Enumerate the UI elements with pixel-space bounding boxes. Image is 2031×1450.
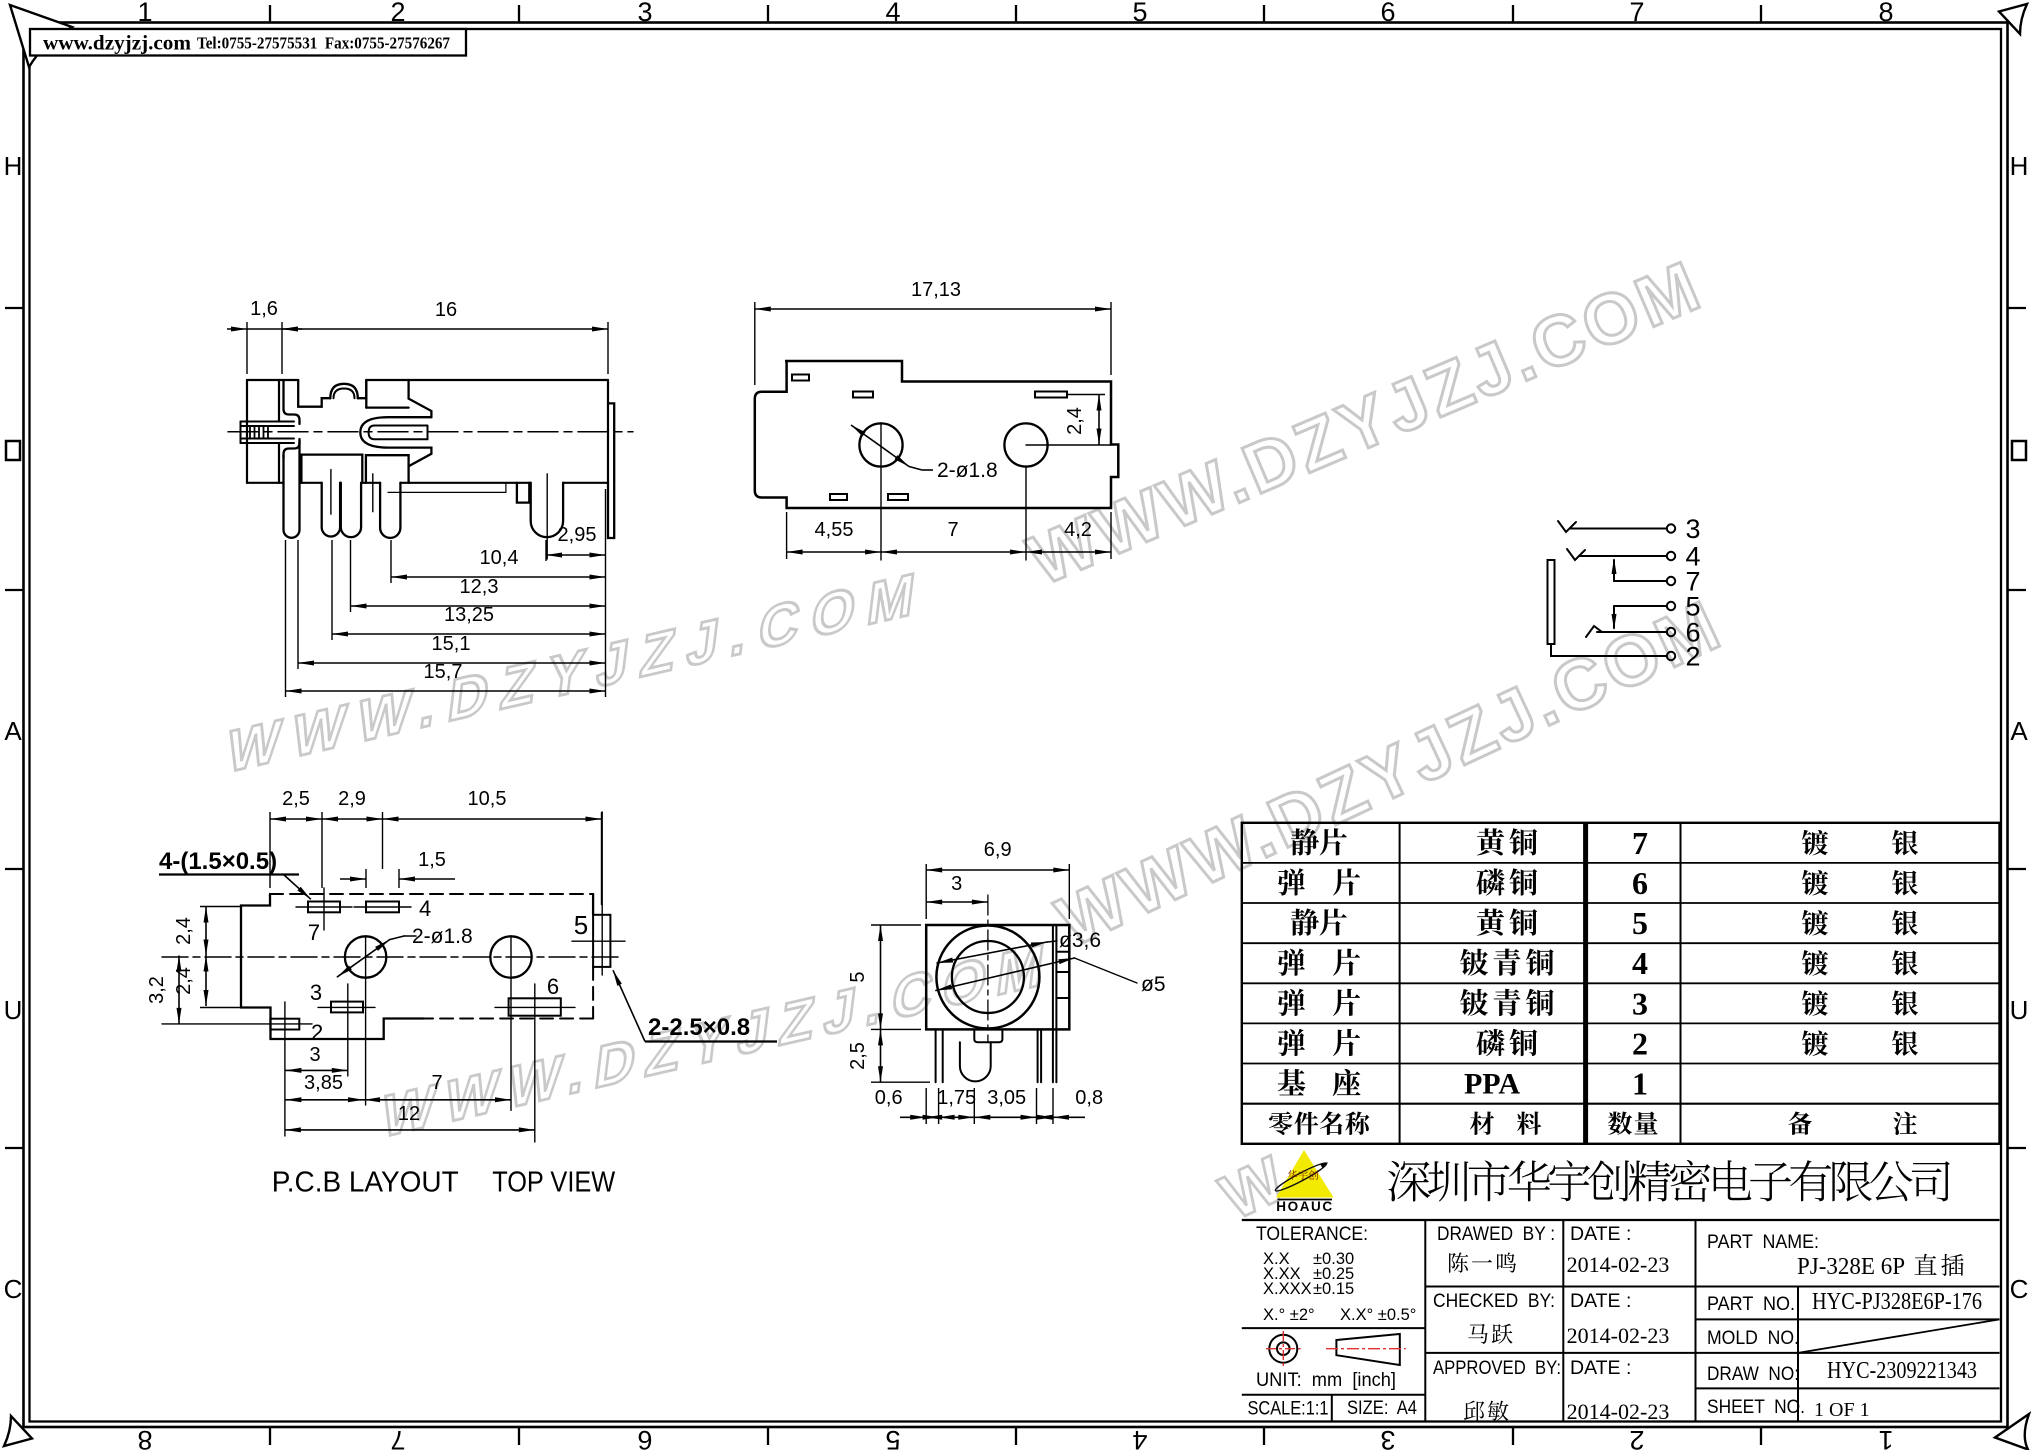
pin 4 (380, 483, 400, 538)
table row 4 (1278, 948, 1360, 975)
svg-text:DRAWED BY :: DRAWED BY : (1437, 1223, 1555, 1245)
pin5 stub (517, 483, 529, 503)
svg-text:2: 2 (390, 0, 405, 27)
url box (30, 29, 466, 56)
svg-text:2,95: 2,95 (558, 524, 597, 546)
table row 2 (1278, 1029, 1360, 1056)
pin 5 (531, 483, 563, 537)
table row 3 (1278, 989, 1360, 1016)
company logo (1276, 1150, 1334, 1198)
pcb outline dashed right/bottom (592, 894, 594, 915)
label o5 (1075, 958, 1138, 983)
company name (1388, 1160, 1950, 1202)
title block lines (1242, 1219, 2000, 1221)
pcb hole right (490, 936, 531, 977)
zone ticks bottom (269, 1427, 271, 1445)
svg-text:www.dzyjzj.com: www.dzyjzj.com (43, 31, 191, 55)
svg-text:3: 3 (309, 1044, 320, 1066)
svg-text:2,5: 2,5 (282, 788, 310, 810)
svg-text:DATE :: DATE : (1570, 1290, 1631, 1312)
svg-text:1: 1 (1878, 1425, 1893, 1450)
svg-text:HOAUC: HOAUC (1276, 1199, 1334, 1214)
svg-text:2-2.5×0.8: 2-2.5×0.8 (648, 1014, 750, 1041)
svg-text:3: 3 (1685, 514, 1700, 544)
pcb outline dashed top (270, 893, 593, 895)
pcb pad 5 (593, 915, 610, 967)
schematic wire pin5 with arrow down (1614, 605, 1667, 607)
svg-text:7: 7 (431, 1072, 442, 1094)
svg-text:5: 5 (1632, 905, 1648, 941)
pcb pad 2 (270, 1019, 299, 1030)
svg-text:2014-02-23: 2014-02-23 (1567, 1252, 1670, 1277)
corner mark top-right (1999, 4, 2027, 34)
front dims 6,9 3 (925, 864, 927, 919)
svg-text:Tel:0755-27575531 Fax:0755-27: Tel:0755-27575531 Fax:0755-27576267 (197, 34, 450, 53)
svg-text:C: C (4, 1274, 23, 1304)
svg-text:10,4: 10,4 (480, 547, 519, 569)
svg-text:A: A (4, 716, 22, 746)
dim 15,1 (298, 662, 606, 664)
top view bottom dims (786, 512, 788, 559)
corner mark bottom-right (1995, 1414, 2029, 1450)
svg-text:X.X° ±0.5°: X.X° ±0.5° (1340, 1306, 1416, 1324)
svg-text:15,7: 15,7 (424, 661, 463, 683)
svg-text:U: U (4, 995, 23, 1025)
right cap plate (608, 403, 614, 538)
svg-text:2,4: 2,4 (1064, 407, 1086, 435)
svg-text:7: 7 (1632, 825, 1648, 861)
svg-text:8: 8 (137, 1425, 152, 1450)
pin 2 (322, 483, 340, 537)
corner mark top-left (10, 5, 72, 67)
svg-text:A: A (2010, 716, 2028, 746)
svg-text:DATE :: DATE : (1570, 1223, 1631, 1245)
svg-text:1,6: 1,6 (250, 298, 278, 320)
svg-text:3: 3 (951, 873, 962, 895)
svg-text:0,6: 0,6 (875, 1087, 903, 1109)
svg-text:HYC-PJ328E6P-176: HYC-PJ328E6P-176 (1812, 1289, 1982, 1315)
svg-text:2,4: 2,4 (173, 967, 195, 995)
svg-text:SIZE: A4: SIZE: A4 (1347, 1397, 1417, 1419)
table row 7 (1291, 828, 1347, 855)
svg-text:ø5: ø5 (1141, 973, 1166, 996)
dim 15,7 (286, 690, 606, 692)
svg-text:2-ø1.8: 2-ø1.8 (937, 459, 998, 482)
schematic wire pin6 (1597, 631, 1667, 633)
svg-text:5: 5 (847, 971, 869, 982)
svg-text:2014-02-23: 2014-02-23 (1567, 1399, 1670, 1424)
schematic sleeve bar (1548, 560, 1555, 644)
pin center lines (330, 470, 332, 515)
front flange (284, 380, 300, 424)
svg-text:PART NO.: PART NO. (1707, 1293, 1795, 1315)
schematic wire pin3 (1570, 528, 1667, 530)
svg-text:ø3,6: ø3,6 (1059, 929, 1101, 952)
svg-text:APPROVED BY:: APPROVED BY: (1433, 1357, 1561, 1379)
svg-text:7: 7 (1629, 0, 1644, 27)
svg-text:10,5: 10,5 (468, 788, 507, 810)
svg-text:TOLERANCE:: TOLERANCE: (1256, 1223, 1368, 1245)
dim extension verticals below (285, 540, 287, 697)
parts table grid (1242, 823, 2000, 1144)
svg-text:1: 1 (1632, 1066, 1648, 1102)
svg-text:4,2: 4,2 (1064, 519, 1092, 541)
projection symbol cone (1336, 1334, 1399, 1365)
svg-text:TOP VIEW: TOP VIEW (492, 1167, 616, 1199)
svg-text:H: H (4, 151, 23, 181)
svg-text:2,5: 2,5 (847, 1042, 869, 1070)
front inner circle (952, 941, 1024, 1013)
schematic wire pin7 with arrow to pin4 (1614, 580, 1667, 582)
schematic pin 3 terminal (1667, 524, 1675, 532)
svg-text:CHECKED BY:: CHECKED BY: (1433, 1290, 1555, 1312)
svg-text:X.XXX: X.XXX (1263, 1280, 1312, 1298)
schematic pin 5 terminal (1667, 602, 1675, 610)
top notch with dome tab (298, 380, 366, 407)
pcb top dims 2,5 2,9 10,5 (269, 812, 271, 888)
pcb left dims 2,4 2,4 3,2 (200, 906, 241, 908)
svg-text:3: 3 (637, 0, 652, 27)
dim 13,25 (332, 633, 606, 635)
svg-text:2: 2 (311, 1020, 323, 1045)
svg-text:3: 3 (1632, 985, 1648, 1021)
left mount block (246, 380, 248, 483)
svg-text:2: 2 (1685, 642, 1700, 672)
pcb pad 6 (509, 998, 561, 1015)
front diag leaders (936, 958, 1075, 991)
pcb outline solid left (241, 894, 424, 1039)
svg-text:6: 6 (637, 1425, 652, 1450)
schematic pin 6 terminal (1667, 628, 1675, 636)
svg-text:5: 5 (574, 910, 588, 940)
pin 1 (284, 440, 300, 538)
front shield double lines (1052, 925, 1054, 1029)
svg-text:17,13: 17,13 (911, 279, 961, 301)
svg-text:3,05: 3,05 (987, 1087, 1026, 1109)
corner mark bottom-left (4, 1416, 32, 1446)
pin 3 (341, 483, 361, 537)
front dims 5 / 2,5 (871, 924, 921, 926)
svg-text:6,9: 6,9 (984, 839, 1012, 861)
svg-text:1: 1 (137, 0, 152, 27)
front pins (936, 1029, 943, 1082)
svg-text:6: 6 (1632, 865, 1648, 901)
svg-text:3,2: 3,2 (146, 976, 168, 1004)
svg-text:16: 16 (435, 299, 457, 321)
svg-text:UNIT: mm [inch]: UNIT: mm [inch] (1256, 1369, 1396, 1391)
dim 1,6 / 16 top (246, 322, 248, 374)
front view body (926, 925, 1069, 1029)
dim 2,4 top view (1067, 394, 1105, 396)
svg-text:12,3: 12,3 (460, 576, 499, 598)
svg-text:MOLD NO.: MOLD NO. (1707, 1327, 1799, 1349)
schematic pin 7 terminal (1667, 577, 1675, 585)
barrel comb (241, 421, 295, 423)
svg-text:DRAW NO:: DRAW NO: (1707, 1363, 1799, 1385)
schematic pin 4 terminal (1667, 552, 1675, 560)
svg-text:4: 4 (1632, 945, 1648, 981)
dim 17,13 (754, 302, 756, 385)
zone ticks left (5, 307, 24, 309)
projection symbol target (1269, 1335, 1297, 1363)
svg-text:3: 3 (1380, 1425, 1395, 1450)
svg-text:4,55: 4,55 (815, 519, 854, 541)
front bottom dims (925, 1088, 927, 1124)
side view body outline (247, 379, 298, 381)
svg-text:P.C.B LAYOUT: P.C.B LAYOUT (272, 1167, 459, 1199)
lower block right (366, 455, 409, 483)
top view hole right (1004, 423, 1047, 466)
svg-text:4: 4 (885, 0, 900, 27)
svg-text:4: 4 (419, 896, 431, 921)
dim 10,4 (391, 576, 606, 578)
svg-text:7: 7 (947, 519, 958, 541)
svg-text:1 OF 1: 1 OF 1 (1814, 1399, 1870, 1421)
pcb pad 3 (331, 1002, 363, 1013)
front outer circle (936, 926, 1039, 1029)
svg-text:0,8: 0,8 (1075, 1087, 1103, 1109)
svg-text:X.° ±2°: X.° ±2° (1263, 1306, 1315, 1324)
svg-text:4-(1.5×0.5): 4-(1.5×0.5) (159, 848, 277, 875)
svg-text:SHEET NO.: SHEET NO. (1707, 1396, 1805, 1418)
svg-text:1,5: 1,5 (418, 849, 446, 871)
svg-text:DATE :: DATE : (1570, 1357, 1631, 1379)
svg-text:2014-02-23: 2014-02-23 (1567, 1323, 1670, 1348)
top view outline (755, 361, 1119, 508)
top view hole left (859, 423, 902, 466)
svg-text:PPA: PPA (1464, 1068, 1520, 1101)
pcb pad 7 (308, 902, 340, 913)
svg-text:2: 2 (1632, 1026, 1648, 1062)
svg-text:PJ-328E 6P: PJ-328E 6P (1797, 1254, 1905, 1280)
mold no diagonal slash (1798, 1319, 2000, 1353)
leader 2-o1.8 top view (851, 425, 909, 467)
svg-text:U: U (2010, 995, 2029, 1025)
svg-text:1,75: 1,75 (937, 1087, 976, 1109)
svg-text:2,9: 2,9 (338, 788, 366, 810)
pcb dim 1,5 (365, 869, 367, 888)
table row 5 (1291, 908, 1347, 935)
seating line (388, 491, 506, 493)
mid block (365, 380, 367, 408)
table header row (1269, 1111, 1369, 1135)
dim 2,95 (546, 554, 606, 556)
schematic wire pin2 from sleeve (1551, 644, 1667, 656)
svg-text:2: 2 (1629, 1425, 1644, 1450)
side view bottom edge (247, 482, 284, 484)
lower block left (301, 455, 362, 483)
label o3,6 (1047, 941, 1057, 942)
pcb bottom dims (285, 1069, 347, 1071)
svg-text:3: 3 (310, 980, 322, 1005)
svg-text:PART NAME:: PART NAME: (1707, 1231, 1819, 1253)
contact fork (360, 417, 431, 466)
center line side view (228, 431, 633, 433)
table row 6 (1278, 868, 1360, 895)
svg-text:5: 5 (885, 1425, 900, 1450)
svg-text:5: 5 (1132, 0, 1147, 27)
zone ticks top (269, 5, 271, 23)
svg-text:13,25: 13,25 (444, 604, 494, 626)
svg-text:15,1: 15,1 (432, 633, 471, 655)
svg-text:12: 12 (398, 1103, 420, 1125)
svg-text:6: 6 (547, 974, 559, 999)
beak upper (409, 399, 432, 418)
front right notches (1056, 952, 1069, 998)
svg-text:2,4: 2,4 (173, 917, 195, 945)
leader 2-o1.8 pcb (337, 940, 389, 977)
svg-text:±0.15: ±0.15 (1313, 1280, 1354, 1298)
pcb hole left (345, 936, 386, 977)
svg-text:3,85: 3,85 (304, 1072, 343, 1094)
svg-text:SCALE:1:1: SCALE:1:1 (1248, 1398, 1329, 1420)
svg-text:8: 8 (1878, 0, 1893, 27)
svg-text:7: 7 (308, 920, 320, 945)
svg-text:C: C (2010, 1274, 2029, 1304)
zone ticks right (2008, 307, 2027, 309)
table row 1 (1278, 1069, 1361, 1096)
svg-text:2-ø1.8: 2-ø1.8 (412, 925, 473, 948)
svg-text:6: 6 (1380, 0, 1395, 27)
svg-text:7: 7 (390, 1425, 405, 1450)
front circle verticals (987, 895, 989, 1042)
svg-text:HYC-2309221343: HYC-2309221343 (1827, 1358, 1977, 1384)
pcb centerline (162, 956, 620, 958)
svg-text:4: 4 (1132, 1425, 1147, 1450)
svg-text:H: H (2010, 151, 2029, 181)
pcb pad 4 (366, 902, 399, 913)
front center pin (974, 1029, 1002, 1042)
schematic pin 2 terminal (1667, 652, 1675, 660)
top view slots (792, 375, 809, 381)
schematic wire pin4 (1579, 555, 1667, 557)
dim 12,3 (351, 605, 606, 607)
